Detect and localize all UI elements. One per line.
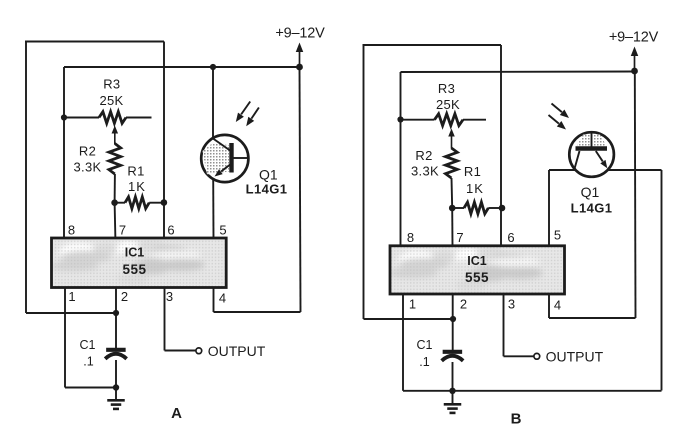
wiper arrow of R3 (B)	[448, 129, 455, 137]
svg-text:5: 5	[554, 228, 561, 243]
wire: B pin 7 vertical	[451, 208, 453, 246]
svg-text:.1: .1	[83, 355, 93, 369]
svg-text:R1: R1	[127, 164, 144, 179]
svg-text:IC1: IC1	[467, 254, 487, 268]
wire: B pin 8 vertical (inner frame left)	[400, 72, 402, 246]
wire: B +V rail down to pin 4 level	[634, 71, 637, 318]
resistor R3 25K (B)	[401, 81, 487, 126]
wire: B pin 2 vertical to C1	[452, 294, 454, 350]
junction: A pin 2 node	[113, 310, 119, 316]
svg-text:3: 3	[166, 289, 173, 304]
svg-text:IC1: IC1	[125, 246, 145, 260]
junction: A ground node	[113, 384, 119, 390]
wire: A emitter wire from Q1 down to pin 5	[212, 179, 214, 239]
resistor R3 25K (A)	[64, 77, 152, 124]
transistor Q1 L14G1 (B)	[569, 132, 614, 215]
svg-text:C1: C1	[417, 338, 433, 352]
transistor Q1 L14G1 (A)	[201, 135, 287, 197]
svg-text:1K: 1K	[466, 181, 484, 196]
svg-text:555: 555	[122, 262, 146, 277]
svg-text:OUTPUT: OUTPUT	[208, 343, 266, 359]
node: B OUTPUT terminal	[534, 353, 540, 359]
wire: A outer frame left side (pin 2 to top)	[25, 42, 27, 314]
capacitor C1 .1 (A)	[80, 338, 127, 369]
IC IC1 555 timer (A)	[49, 238, 226, 288]
svg-text:A: A	[171, 405, 182, 422]
wire: A top rail to +9-12V	[64, 66, 300, 68]
wire: B outer frame top (to pin 6 line)	[363, 44, 502, 46]
svg-text:Q1: Q1	[581, 184, 600, 200]
wire: B outer frame left side (pin 2 to top)	[363, 45, 365, 319]
wire: A pin 8 vertical (inner frame left)	[63, 67, 65, 239]
svg-text:6: 6	[167, 223, 174, 238]
svg-text:1: 1	[409, 297, 416, 312]
wire: A outer frame top (to pin 6 line)	[25, 41, 164, 43]
junction: A R3 left node	[61, 114, 67, 120]
svg-text:+9–12V: +9–12V	[609, 30, 659, 46]
svg-text:1K: 1K	[128, 179, 146, 194]
wire: A right rail +V down to pin 4 level	[300, 67, 301, 312]
power +9-12V supply arrow (A)	[296, 43, 304, 53]
svg-text:R3: R3	[438, 81, 455, 96]
junction: B pin 2 node	[450, 316, 456, 322]
svg-text:7: 7	[456, 230, 463, 245]
wire: A pin 4 vertical	[213, 288, 215, 313]
svg-text:OUTPUT: OUTPUT	[546, 348, 604, 364]
svg-text:R3: R3	[103, 77, 120, 92]
wire: B pin 4 horizontal	[549, 317, 636, 319]
svg-text:25K: 25K	[99, 93, 123, 108]
svg-text:.1: .1	[419, 355, 429, 369]
wire: B top rail to +9-12V	[401, 71, 635, 74]
svg-text:R1: R1	[464, 164, 481, 179]
resistor R1 1K (A)	[115, 164, 164, 209]
junction: A collector tap on top rail	[210, 64, 216, 70]
junction: B +V node on top rail	[631, 68, 638, 75]
svg-text:2: 2	[460, 297, 467, 312]
svg-text:C1: C1	[80, 338, 96, 352]
wire: B pin 4 vertical	[548, 294, 550, 318]
capacitor C1 .1 (B)	[417, 338, 464, 369]
svg-text:L14G1: L14G1	[571, 201, 613, 216]
IC IC1 555 timer (B)	[388, 246, 565, 294]
wire: B output horizontal	[504, 355, 534, 357]
resistor R2 3.3K (B)	[411, 148, 457, 208]
wiper arrow of R3 (A)	[112, 126, 119, 134]
wire: A pin 1 vertical	[64, 288, 66, 388]
svg-text:8: 8	[407, 230, 414, 245]
svg-text:3.3K: 3.3K	[411, 164, 439, 179]
svg-text:L14G1: L14G1	[246, 182, 288, 197]
junction: A R1 left / pin 7 node	[111, 199, 118, 206]
wire: B pin 3 vertical	[503, 294, 505, 356]
wire: B box left vertical down to pin 5	[548, 170, 550, 246]
svg-text:3.3K: 3.3K	[74, 159, 102, 174]
resistor R1 1K (B)	[452, 164, 502, 214]
svg-text:R2: R2	[415, 148, 432, 163]
svg-text:R2: R2	[79, 143, 96, 158]
wire: B pin 2 horizontal from outer frame	[364, 318, 454, 320]
wire: C1 bottom lead (B)	[452, 362, 454, 391]
junction: A R1 right node on pin 6 line	[161, 199, 168, 206]
svg-text:Q1: Q1	[259, 167, 278, 183]
wire: A output horizontal	[165, 350, 196, 352]
wire: C1 bottom lead (A)	[115, 360, 117, 388]
wire: A pin 2 vertical to C1	[115, 288, 117, 349]
junction: A +V node on top rail	[296, 64, 303, 71]
svg-text:8: 8	[68, 223, 75, 238]
wire: A collector wire from top rail to Q1	[212, 67, 214, 139]
svg-text:4: 4	[219, 291, 226, 306]
svg-text:2: 2	[121, 289, 128, 304]
power +9-12V supply arrow (B)	[631, 47, 639, 57]
resistor R2 3.3K (A)	[74, 143, 121, 202]
wire: A pin 3 vertical	[164, 288, 166, 351]
wire: B pin 6 vertical (outer frame right)	[500, 45, 502, 246]
svg-text:4: 4	[554, 298, 561, 313]
junction: B ground node	[449, 388, 455, 394]
svg-text:B: B	[511, 411, 522, 428]
wire: B bottom rail to ground	[403, 390, 662, 392]
ground (B)	[452, 391, 454, 404]
wire: A bottom wire pin1 to ground node	[65, 387, 116, 389]
wire: A pin 4 horizontal	[214, 311, 301, 313]
svg-text:555: 555	[465, 270, 489, 285]
svg-text:1: 1	[68, 289, 75, 304]
svg-text:6: 6	[507, 230, 514, 245]
light arrows onto Q1 (A)	[236, 102, 259, 127]
junction: B R1 left / pin 7 node	[449, 205, 456, 212]
node: A OUTPUT terminal	[196, 348, 202, 354]
svg-text:3: 3	[508, 297, 515, 312]
wire: A pin 2 horizontal from outer frame	[26, 312, 116, 314]
wire: A pin 6 vertical (outer frame right)	[163, 42, 165, 240]
svg-text:+9–12V: +9–12V	[275, 26, 325, 42]
wire: B box top (collector/emitter tie line)	[549, 169, 662, 171]
light arrows onto Q1 (B)	[549, 104, 570, 130]
svg-text:7: 7	[119, 223, 126, 238]
junction: B R3 left node	[397, 116, 403, 122]
wire: B box right vertical (emitter to bottom rail)	[661, 170, 663, 391]
ground (A)	[115, 388, 117, 400]
svg-text:25K: 25K	[436, 97, 460, 112]
wire: B pin 1 vertical	[402, 294, 404, 391]
junction: B R1 right node on pin 6 line	[499, 205, 506, 212]
wire: A pin 7 vertical	[114, 203, 117, 239]
svg-text:5: 5	[219, 223, 226, 238]
